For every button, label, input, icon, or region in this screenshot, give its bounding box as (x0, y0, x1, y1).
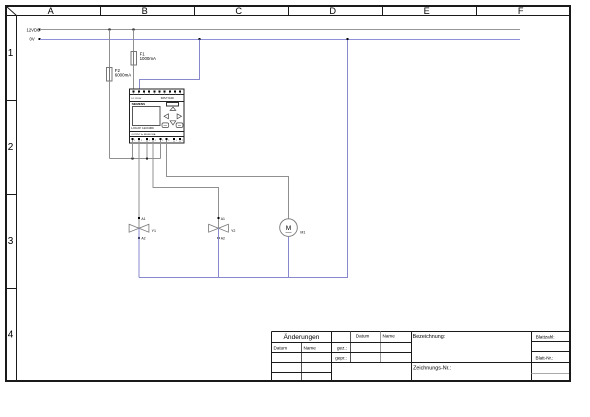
svg-text:gepr.:: gepr.: (335, 355, 347, 360)
motor M1 (280, 219, 306, 237)
node: 0V tap to PLC M pin (199, 38, 201, 40)
wire 0V to PLC M pin (140, 40, 200, 90)
svg-text:Datum: Datum (274, 345, 288, 350)
svg-text:0V: 0V (30, 37, 35, 42)
wire Q3b to motor M1 (167, 140, 289, 219)
svg-text:gez.:: gez.: (337, 345, 347, 350)
wire bus to Q2a pin (146, 140, 148, 159)
wire Q1b to valve Y1 (138, 140, 140, 228)
svg-text:2: 2 (141, 140, 142, 142)
button up (170, 107, 176, 110)
svg-text:1: 1 (176, 140, 177, 142)
svg-text:12VDC: 12VDC (27, 27, 41, 32)
button ESC (162, 123, 169, 128)
svg-text:D: D (329, 6, 336, 16)
title block (272, 332, 570, 381)
svg-text:2: 2 (168, 140, 169, 142)
svg-text:1: 1 (8, 48, 14, 59)
wire Q2b to valve Y2 (153, 140, 219, 228)
svg-text:A2: A2 (221, 237, 225, 241)
svg-text:4: 4 (8, 329, 14, 340)
svg-text:Bezeichnung:: Bezeichnung: (413, 334, 446, 340)
svg-text:Datum: Datum (356, 333, 370, 338)
svg-text:Y1: Y1 (152, 229, 156, 233)
pins Q1 Q2 Q3 Q4 (132, 138, 183, 142)
LCD display (133, 107, 161, 126)
svg-text:A1: A1 (221, 217, 225, 221)
valve Y2 (209, 217, 236, 241)
svg-text:A2: A2 (141, 237, 145, 241)
wire 0V return bus (139, 40, 348, 278)
node: bus to Q2a (146, 158, 148, 160)
node: 12VDC tap to F1 (133, 29, 135, 31)
svg-text:Blattzahl:: Blattzahl: (536, 335, 555, 340)
svg-text:1: 1 (134, 140, 135, 142)
svg-text:B: B (142, 6, 148, 16)
svg-text:2: 2 (182, 140, 183, 142)
node: bus to Q1a (132, 158, 134, 160)
svg-text:INPUT 8xDC: INPUT 8xDC (161, 98, 175, 100)
wire Y2 to 0V return bus (218, 228, 220, 277)
wire Q output supply bus (110, 158, 161, 160)
wire bus to Q3a pin (160, 140, 162, 159)
wire Y1 to 0V return bus (138, 228, 140, 277)
svg-text:2: 2 (8, 142, 14, 153)
svg-text:OUTPUT 4x RELAY/10A: OUTPUT 4x RELAY/10A (131, 133, 156, 136)
svg-text:1000mA: 1000mA (140, 56, 156, 61)
svg-text:E: E (424, 6, 430, 16)
button down (170, 121, 176, 125)
net 0V rail (30, 37, 521, 42)
svg-text:A1: A1 (141, 217, 145, 221)
LOGO! badge (167, 103, 179, 107)
button OK (176, 123, 183, 128)
svg-text:Zeichnungs-Nr.:: Zeichnungs-Nr.: (413, 365, 451, 371)
svg-text:1: 1 (149, 140, 150, 142)
svg-text:3: 3 (8, 236, 14, 247)
svg-text:LOGO! 12/24RC: LOGO! 12/24RC (131, 126, 155, 130)
svg-text:2: 2 (155, 140, 156, 142)
fuse F1 (131, 52, 156, 66)
pins L+ M I1 I2 I3 I4 I5 I6 I7 I8 (133, 90, 182, 94)
svg-text:Name: Name (383, 333, 396, 338)
node: return bus to 0V rail (347, 38, 349, 40)
svg-text:M1: M1 (300, 231, 305, 235)
button left (164, 114, 168, 119)
svg-text:Y2: Y2 (231, 229, 235, 233)
PLC U1 LOGO! module (130, 89, 185, 143)
button right (177, 114, 181, 119)
svg-text:Blatt-Nr.:: Blatt-Nr.: (536, 356, 554, 361)
wire 12VDC to fuse F2 (109, 30, 111, 68)
svg-text:Änderungen: Änderungen (284, 333, 320, 341)
wire fuse F1 to PLC L+ pin (133, 65, 135, 89)
wire fuse F2 to output bus (109, 81, 111, 159)
svg-text:1: 1 (162, 140, 163, 142)
svg-text:M: M (286, 225, 292, 232)
wire 12VDC to fuse F1 (133, 30, 135, 52)
svg-text:SIEMENS: SIEMENS (132, 102, 146, 106)
net 12VDC supply rail (27, 27, 521, 32)
wire bus to Q1a pin (132, 140, 134, 159)
svg-text:F: F (518, 6, 524, 16)
node: 12VDC tap to F2 (109, 29, 111, 31)
valve Y1 (129, 217, 156, 241)
svg-text:DC 12/24V: DC 12/24V (131, 98, 141, 100)
svg-text:Name: Name (304, 345, 317, 350)
fuse F2 (107, 68, 132, 82)
svg-text:C: C (235, 6, 242, 16)
svg-text:A: A (48, 6, 55, 16)
wire M1 to 0V return bus (288, 236, 290, 277)
svg-text:6000mA: 6000mA (115, 72, 131, 77)
